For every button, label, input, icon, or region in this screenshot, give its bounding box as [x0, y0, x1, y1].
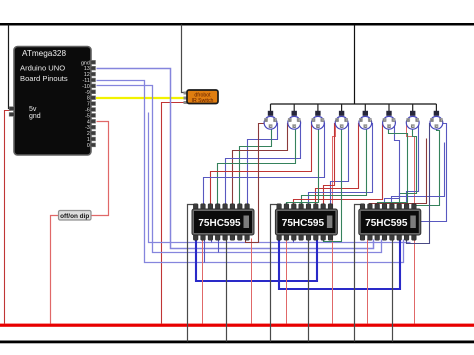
- wire Q8.E2 to U4 pin5: [392, 143, 445, 206]
- wire Q7.C to U4 pin6: [400, 128, 417, 206]
- wire serial tap stub IC1: [211, 240, 213, 243]
- wire Q-row supply right of U2: [251, 239, 253, 324]
- wire GND top bus to IR switch: [182, 25, 185, 93]
- wire Q5.E to U3 pin5: [309, 124, 373, 206]
- transistor Q5: [359, 104, 372, 129]
- wire U1 pin11 data bus: [97, 81, 404, 263]
- transistor Q4: [335, 104, 348, 129]
- wire Q4.B to U3 pin7: [324, 124, 336, 206]
- svg-text:75HC595: 75HC595: [365, 218, 408, 229]
- svg-text:gnd: gnd: [29, 113, 41, 120]
- wire Q8.E to U4 bottom pin8: [414, 124, 447, 240]
- IC U3 75HC595 shift register: [275, 204, 337, 240]
- wire Q4.E to U3 pin8: [331, 124, 349, 206]
- wire Q6.C to U4 pin3: [378, 128, 408, 206]
- wire Q8.B to U4 bottom pin7: [407, 124, 431, 244]
- wire U1 pin10 latch bus: [97, 86, 382, 253]
- node 5V bottom red bus: [0, 324, 474, 327]
- wire Q8.C to U4 pin8: [414, 128, 440, 206]
- wire U3 pin5 to GND bus: [308, 240, 310, 342]
- IC U4 75HC595 shift register: [359, 204, 421, 240]
- wire Q4.B2 supply right of U3: [333, 124, 336, 324]
- wire Q6.B to U3 pin3: [294, 124, 383, 206]
- transistor Q3: [312, 104, 325, 129]
- wire Q3.B to U2 pin3: [211, 124, 312, 206]
- wire U4 pin5 to GND bus: [392, 240, 394, 342]
- wire U2 pin5 to GND bus: [226, 240, 228, 342]
- wire Q2.C to U2 pin4: [218, 128, 296, 206]
- node GND top bus: [0, 23, 474, 26]
- wire Q7.B supply right of U4: [407, 124, 415, 324]
- switch S1 off/on dip: [59, 211, 92, 221]
- wire Q1.E to U2 pin8: [248, 124, 278, 206]
- svg-text:5v: 5v: [29, 106, 37, 113]
- sensor U5 dfrobot IR Switch: [184, 90, 219, 104]
- node GND bottom black bus: [0, 341, 474, 344]
- svg-text:off/on dip: off/on dip: [60, 213, 89, 220]
- wire Q1.B to U2 bottom pin: [246, 124, 265, 243]
- wire dip switch to 5V bus: [51, 216, 59, 324]
- wire Q1.C to U2 pin7: [240, 128, 272, 206]
- wire Q8 spare to U4 pin2: [370, 139, 427, 206]
- wire IR switch to 5V bus (red): [162, 103, 185, 324]
- svg-text:Board Pinouts: Board Pinouts: [20, 74, 68, 83]
- wire U4 pin2 to 5V bus: [367, 240, 369, 324]
- svg-text:ATmega328: ATmega328: [22, 49, 66, 58]
- wire U2 pin2 to 5V bus: [202, 240, 204, 324]
- wire Q4.C to U3 bottom pin: [324, 128, 342, 242]
- wire Q3.C to U3 pin2: [287, 128, 319, 206]
- wire Q5.B to U3 pin6: [316, 124, 360, 206]
- svg-text:Arduino UNO: Arduino UNO: [20, 64, 65, 73]
- wire Q6.E to U4 pin4: [385, 124, 400, 206]
- wire Q5.C to U3 pin4: [302, 128, 367, 206]
- transistor Q2: [288, 104, 301, 129]
- transistor collector supply bus (black): [271, 25, 437, 104]
- wire GND top bus to U1 5v pin: [9, 25, 11, 109]
- wire U2 pin1 cascade to U3: [196, 240, 317, 281]
- transistor Q6: [383, 104, 396, 129]
- svg-text:75HC595: 75HC595: [198, 218, 241, 229]
- wire latch bus stub IC1: [218, 240, 220, 253]
- wire U1 pin8 to IR switch (yellow): [96, 97, 185, 99]
- wire serial tap stub IC2: [293, 240, 295, 243]
- transistor Q1: [264, 104, 277, 129]
- wire data bus stub IC1: [204, 240, 206, 263]
- svg-text:IR Switch: IR Switch: [192, 98, 214, 104]
- wire U4 pin16 loop to GND bus: [355, 205, 363, 342]
- wire U1 pin4 to dip switch: [92, 122, 109, 216]
- wire Q3.E to U2 pin2: [204, 124, 325, 206]
- svg-text:0: 0: [87, 143, 90, 149]
- wire Q7.E to U4 pin7: [407, 124, 419, 206]
- transistor Q8: [430, 104, 443, 129]
- wire U3 pin16 loop to GND bus: [271, 205, 280, 342]
- wire U3 pin1 cascade mid: [279, 240, 400, 289]
- MCU U1 ATmega328 Arduino UNO pinout block: [9, 47, 95, 156]
- wire U2 pin16 loop to GND bus: [188, 205, 196, 342]
- wire U1 5v pin to 5V red bus: [5, 111, 11, 324]
- transistor Q7: [406, 104, 419, 129]
- wire serial tap bus: [149, 113, 411, 243]
- svg-text:75HC595: 75HC595: [282, 218, 325, 229]
- IC U2 75HC595 shift register: [192, 204, 254, 240]
- wire U3 pin2 to 5V bus: [286, 240, 288, 324]
- wire Q2.E to U2 pin5: [226, 124, 301, 206]
- wire U1 pin13 clock bus: [97, 69, 374, 249]
- wire Q2.B to U2 pin6: [233, 124, 289, 206]
